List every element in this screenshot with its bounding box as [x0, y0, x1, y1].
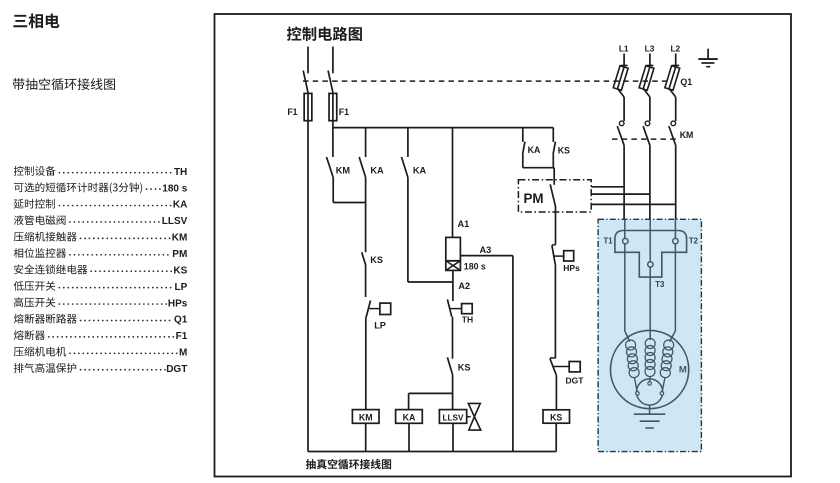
wire: pair to PM — [553, 168, 555, 181]
svg-text:KS: KS — [550, 413, 562, 423]
svg-text:M: M — [179, 348, 187, 359]
wire: feed line 2 top — [332, 47, 334, 74]
wire: feed line 1 top — [307, 47, 309, 74]
motor ground bar 1 — [634, 413, 666, 415]
svg-text:LLSV: LLSV — [162, 216, 188, 227]
svg-text:DGT: DGT — [566, 375, 585, 385]
wire: KA2 link to node A2 — [408, 281, 453, 283]
wire: T2 lead bend — [670, 331, 676, 342]
KM linkage dashed line — [612, 138, 677, 140]
motor compartment blue box — [598, 219, 701, 451]
wire: KS3 drop — [552, 128, 554, 142]
wire: KA1 down to KS — [365, 177, 367, 252]
svg-text:TH: TH — [462, 315, 473, 325]
earth symbol bar 2 — [701, 62, 714, 64]
wire: KA branch 2 drop — [407, 128, 409, 157]
switch HPs actuator box — [564, 251, 574, 261]
switch blade on feed 2 (linked disconnect) — [328, 71, 333, 93]
fuse-disconnector Q1 pole 3 — [665, 66, 680, 90]
earth symbol bar 1 — [698, 58, 718, 60]
wire: PM out down — [555, 207, 557, 245]
earth symbol stem — [707, 49, 709, 59]
svg-text:KS: KS — [458, 362, 471, 372]
svg-text:KS: KS — [173, 265, 187, 276]
wire: TH actuator link — [450, 308, 462, 310]
wire: PM line 3 — [591, 203, 676, 205]
wire: winding3 to star point — [662, 378, 665, 392]
legend row 5: 压缩机接触器 / KM — [14, 232, 77, 242]
wire: KA coil to bottom bus — [408, 423, 410, 451]
wire: junction to KA coil — [409, 392, 453, 394]
terminal T3 — [648, 262, 653, 267]
wire: LP actuator link — [369, 308, 380, 310]
wire: L2 terminal stem — [675, 54, 677, 66]
legend row 1: 控制设备 / TH — [14, 166, 56, 176]
contact KA blade (2) — [402, 157, 408, 177]
page title 三相电 — [13, 13, 59, 28]
svg-text:KM: KM — [336, 165, 351, 175]
svg-text:KA: KA — [370, 165, 384, 175]
page subtitle 带抽空循环接线图 — [13, 78, 115, 90]
motor M body — [611, 330, 689, 408]
wire: top bus — [333, 127, 553, 129]
legend row 13: 排气高温保护 / DGT — [14, 363, 76, 373]
wire: T2 lead — [674, 219, 676, 331]
wire: PM line 1 — [591, 186, 624, 188]
motor winding 1 (left coil) — [626, 340, 640, 378]
switch TH blade — [447, 299, 451, 316]
solenoid LLSV box — [439, 410, 466, 424]
wire: KS3 lower — [552, 154, 554, 167]
switch LP blade — [366, 301, 371, 319]
switch HPs blade — [552, 245, 555, 264]
mechanical linkage dashed line to Q1 — [303, 80, 671, 82]
fuse-disconnector Q1 pole 2 — [639, 66, 654, 90]
coil KS box — [543, 410, 570, 423]
contact KM pole 1 fixed contact — [619, 121, 624, 126]
contact KM pole 2 fixed contact — [645, 121, 650, 126]
wire: timer output down — [452, 270, 454, 301]
fuse F1 (right) element wire — [332, 93, 334, 120]
wire: PM internal top — [553, 180, 555, 185]
fuse F1 (left) body — [304, 93, 312, 120]
switch DGT hook — [550, 357, 556, 359]
wire: LLSV to bottom bus — [452, 423, 454, 451]
wire: winding1 to star point — [635, 378, 638, 392]
star terminal right — [660, 392, 664, 396]
valve symbol upper triangle — [468, 403, 480, 416]
switch HPs hook — [552, 244, 556, 246]
fuse F1 (left) element wire — [307, 93, 309, 120]
svg-text:KS: KS — [370, 255, 383, 265]
earth symbol bar 3 — [706, 66, 710, 68]
svg-text:L3: L3 — [645, 44, 655, 54]
motor winding 2 (center coil) — [645, 339, 655, 377]
star point circle — [637, 379, 663, 405]
wire: below KM contact — [332, 177, 334, 202]
svg-text:F1: F1 — [287, 107, 297, 117]
contact KA blade (3) — [523, 142, 525, 155]
wire: DGT to KS coil — [555, 375, 557, 409]
wire: KA branch 1 drop — [365, 128, 367, 157]
svg-text:HPs: HPs — [168, 298, 188, 309]
coil KM box — [352, 410, 379, 424]
wire: T1 lead — [624, 219, 626, 331]
svg-text:T2: T2 — [689, 236, 699, 245]
svg-text:T3: T3 — [655, 280, 665, 289]
motor winding 3 (right coil) — [660, 340, 673, 378]
legend row 10: 熔断器断路器 / Q1 — [14, 314, 77, 324]
wire: KS2 to LLSV — [452, 375, 454, 410]
svg-text:KA: KA — [173, 200, 187, 211]
L2 terminal bar — [672, 65, 679, 67]
switch DGT actuator box — [569, 362, 580, 372]
contact KS blade (3) — [553, 142, 555, 155]
svg-text:A1: A1 — [458, 219, 470, 229]
motor ground bar 3 — [645, 427, 654, 429]
motor ground bar 2 — [640, 420, 660, 422]
wire: KM branch drop — [332, 128, 334, 157]
switch TH actuator box — [462, 304, 473, 314]
fuse F1 (right) body — [329, 93, 337, 120]
wire: feed 2 fuse to top bus — [332, 121, 334, 128]
svg-text:L2: L2 — [670, 44, 680, 54]
svg-text:LLSV: LLSV — [443, 414, 464, 423]
wire: T3 lead — [649, 219, 651, 340]
contact KM pole 1 blade — [617, 126, 624, 145]
svg-text:TH: TH — [174, 167, 187, 178]
wire: KS coil to bottom bus — [555, 423, 557, 451]
switch blade on feed 1 (linked disconnect) — [303, 71, 308, 93]
svg-text:KM: KM — [359, 413, 373, 423]
wire: KM coil to bottom bus — [365, 423, 367, 451]
svg-text:F1: F1 — [176, 331, 188, 342]
wire: HPs actuator link — [554, 255, 564, 257]
svg-text:KA: KA — [528, 145, 541, 155]
timer 180s coil X — [446, 261, 461, 271]
label 控制电路图 — [287, 27, 362, 42]
contact KA blade (1) — [359, 157, 365, 177]
svg-text:T1: T1 — [604, 237, 614, 246]
diagram frame border — [215, 14, 792, 477]
legend row 3: 延时控制 / KA — [14, 199, 55, 209]
svg-text:KS: KS — [558, 146, 570, 156]
wire: KA3 lower — [522, 154, 524, 167]
svg-text:M: M — [679, 365, 687, 376]
legend row 9: 高压开关 / HPs — [14, 297, 55, 307]
L3 terminal bar — [646, 65, 653, 67]
legend row 7: 安全连锁继电器 / KS — [14, 264, 87, 274]
wire: phase 2 down to motor box — [649, 145, 651, 219]
star terminal left — [636, 392, 640, 396]
svg-text:F1: F1 — [339, 107, 349, 117]
contact KM pole 3 fixed contact — [671, 121, 676, 126]
legend row 12: 压缩机电机 / M — [14, 347, 66, 357]
wire: KA coil drop — [408, 393, 410, 409]
star terminal top — [648, 382, 652, 386]
wire: KA2 down to node A2 level — [407, 177, 409, 282]
wire: LLSV to valve — [467, 416, 471, 418]
wire: phase 1 down to motor box — [623, 145, 625, 219]
timer 180s body — [446, 237, 461, 260]
wire: T1 lead bend — [625, 331, 630, 342]
timer 180s coil box — [446, 261, 461, 271]
legend row 11: 熔断器 / F1 — [14, 330, 45, 340]
svg-text:Q1: Q1 — [680, 77, 692, 87]
wire: L3 terminal stem — [649, 54, 651, 66]
motor ground stem — [649, 405, 651, 414]
switch DGT blade — [550, 358, 557, 375]
phase monitor PM box — [518, 180, 591, 212]
legend row 8: 低压开关 / LP — [14, 281, 56, 291]
svg-text:KA: KA — [413, 165, 427, 175]
caption 抽真空循环接线图 — [306, 459, 391, 469]
wire: pair join — [523, 167, 554, 169]
wire: KM-KA junction link — [333, 202, 365, 204]
svg-text:180 s: 180 s — [464, 261, 486, 271]
terminal T2 — [673, 238, 678, 243]
wire: phase 3 down to motor box — [675, 145, 677, 219]
wire: node A3 horizontal — [460, 255, 513, 257]
svg-text:180 s: 180 s — [162, 183, 187, 194]
wire: KS to LP — [365, 265, 367, 298]
wire: DGT actuator link — [554, 366, 570, 368]
contact KM pole 3 blade — [669, 126, 676, 145]
wire: TH to KS2 — [452, 317, 454, 359]
contact KS blade (safety relay) — [362, 252, 366, 264]
svg-text:KM: KM — [172, 233, 188, 244]
wire: LP to KM coil — [365, 318, 367, 410]
switch LP actuator box — [380, 303, 391, 314]
wire: winding2 to star point — [649, 377, 651, 382]
svg-text:LP: LP — [374, 320, 386, 330]
wire: timer branch drop — [452, 128, 454, 238]
svg-text:PM: PM — [524, 191, 544, 206]
wire: bottom bus — [308, 451, 556, 453]
wire: PM line 2 — [591, 193, 650, 195]
contact PM blade — [550, 184, 555, 207]
legend row 2: 可选的短循环计时器(3分钟) / 180 s — [14, 182, 142, 193]
svg-text:Q1: Q1 — [174, 315, 188, 326]
svg-text:KA: KA — [403, 413, 416, 423]
contact KM blade (aux) — [327, 157, 334, 177]
wire: left rail down to bottom bus — [307, 121, 309, 452]
contact KS blade (2) — [447, 357, 452, 374]
svg-text:KM: KM — [680, 130, 694, 140]
svg-text:HPs: HPs — [563, 263, 580, 273]
svg-text:A2: A2 — [458, 281, 470, 291]
svg-text:A3: A3 — [480, 245, 492, 255]
svg-text:LP: LP — [175, 282, 188, 293]
valve symbol lower triangle — [469, 417, 481, 430]
L1 terminal bar — [621, 65, 628, 67]
svg-text:PM: PM — [172, 249, 187, 260]
wire: L1 terminal stem — [623, 54, 625, 66]
terminal T1 — [623, 238, 628, 243]
legend row 6: 相位监控器 / PM — [14, 248, 66, 258]
svg-text:L1: L1 — [619, 44, 629, 54]
wire: node A3 vertical to bottom bus — [512, 256, 514, 452]
svg-text:DGT: DGT — [166, 364, 187, 375]
contact KM pole 2 blade — [643, 126, 650, 145]
legend row 4: 液管电磁阀 / LLSV — [14, 215, 66, 225]
terminal plate outline — [615, 231, 687, 278]
fuse-disconnector Q1 pole 1 — [613, 66, 628, 90]
wire: KA3 drop — [522, 128, 524, 142]
wire: HPs to DGT — [554, 265, 556, 358]
coil KA box — [396, 410, 423, 424]
